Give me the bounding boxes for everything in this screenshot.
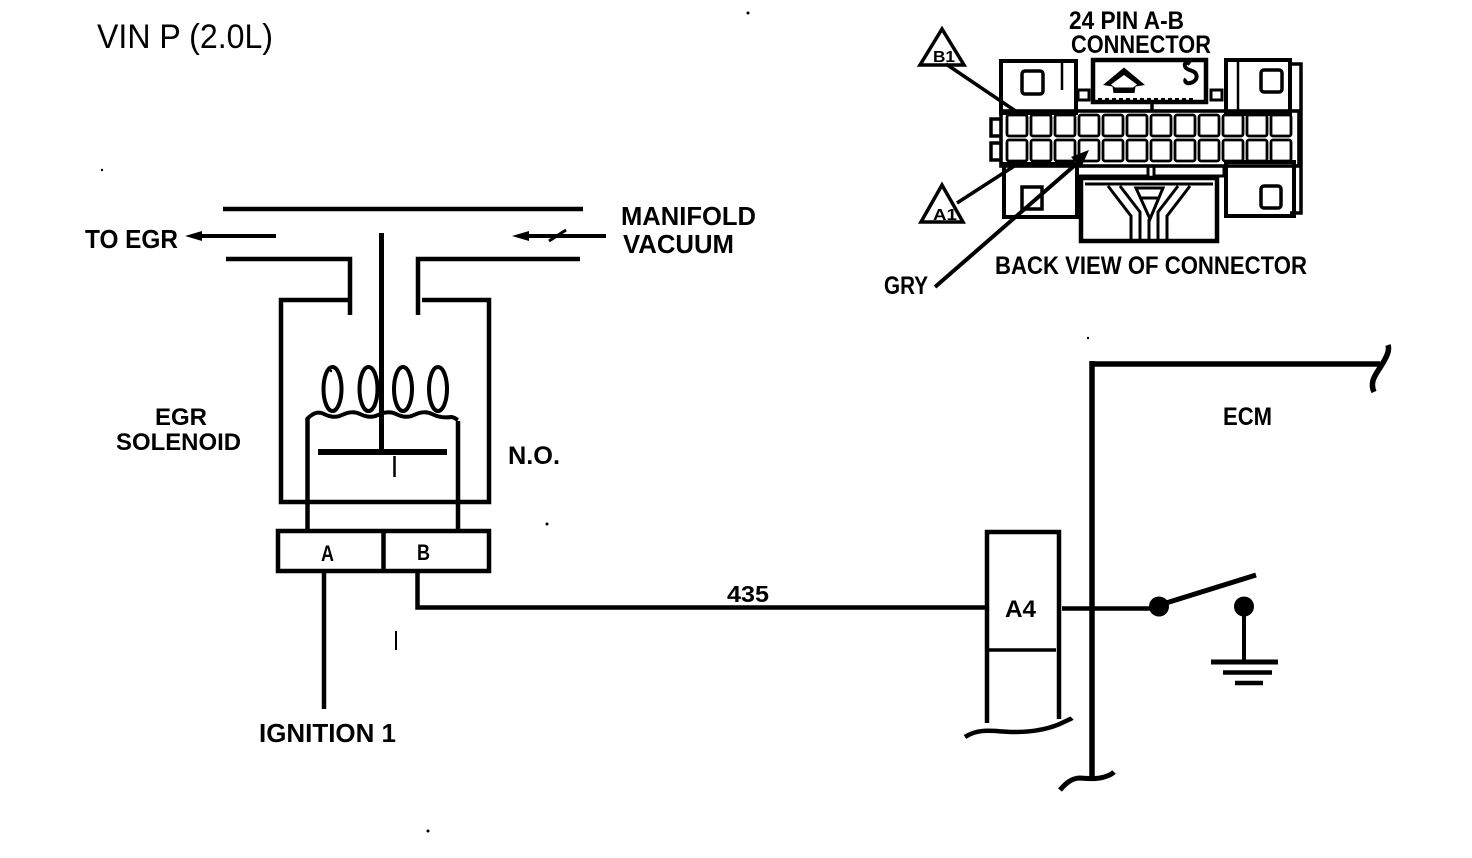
pointer line from B1 (946, 64, 1017, 112)
coil L1 of EGR solenoid (307, 367, 458, 420)
wire manifold vacuum arrow (525, 230, 606, 241)
wire TO EGR arrow (198, 234, 276, 238)
pin grid row A (1007, 115, 1291, 136)
wire to ground (1242, 615, 1246, 661)
svg-text:B1: B1 (933, 49, 955, 66)
wire 435 from pin B to ECM A4 (418, 571, 987, 608)
svg-text:A1: A1 (933, 207, 957, 224)
svg-text:VIN P (2.0L): VIN P (2.0L) (97, 18, 273, 56)
ECM top horizontal line (1090, 361, 1380, 367)
svg-text:SOLENOID: SOLENOID (116, 429, 241, 456)
svg-text:BACK VIEW OF CONNECTOR: BACK VIEW OF CONNECTOR (995, 252, 1307, 280)
wire vacuum top line (223, 207, 583, 212)
ECM internal vertical line (1089, 361, 1095, 779)
pointer line from GRY with arrowhead (935, 159, 1082, 287)
svg-text:TO EGR: TO EGR (85, 224, 178, 254)
callout triangle A1 (921, 185, 963, 222)
svg-text:MANIFOLD: MANIFOLD (621, 201, 756, 231)
valve plate (318, 449, 447, 455)
break squiggle top right (1372, 345, 1388, 392)
valve armature left lead (305, 418, 310, 531)
svg-text:435: 435 (727, 581, 769, 607)
svg-text:GRY: GRY (884, 272, 928, 300)
switch contact dot right (1234, 597, 1254, 617)
connector top-center tab (1093, 60, 1206, 102)
svg-text:EGR: EGR (155, 404, 207, 431)
ECM connector cavity A4 (987, 532, 1059, 723)
scan specks (747, 12, 750, 15)
wire solenoid plunger stem (379, 233, 384, 451)
connector right edge (1290, 64, 1301, 213)
connector top-left block (1001, 61, 1076, 113)
svg-text:N.O.: N.O. (508, 442, 560, 470)
switch contact dot left (1149, 597, 1169, 617)
EGR solenoid outer box (281, 300, 489, 502)
break squiggle bottom of ECM line (1060, 772, 1114, 790)
valve armature right lead (456, 421, 461, 532)
connector top-right block (1226, 60, 1290, 114)
connector block A-B of solenoid (278, 531, 489, 571)
torn edge of A4 box (965, 718, 1072, 737)
callout triangle B1 (920, 29, 964, 65)
connector lower strip (1077, 166, 1148, 176)
pin grid row B (1007, 140, 1291, 161)
connector bottom-left block (1004, 164, 1077, 217)
wire A4 to switch (1062, 606, 1152, 611)
wire ignition 1 (322, 571, 327, 709)
ground symbol (1211, 660, 1278, 665)
connector bottom-right block (1226, 162, 1294, 216)
pointer line from A1 (957, 161, 1022, 203)
wire left pipe to EGR (226, 259, 350, 315)
svg-text:IGNITION 1: IGNITION 1 (259, 718, 396, 748)
connector bottom-center block with Y strain relief (1081, 178, 1217, 241)
svg-text:VACUUM: VACUUM (623, 229, 734, 259)
svg-text:ECM: ECM (1223, 403, 1272, 431)
valve tick below plate (393, 456, 396, 477)
svg-text:CONNECTOR: CONNECTOR (1071, 31, 1211, 59)
24-pin connector main band (1001, 111, 1299, 166)
stray tick mark (395, 631, 397, 650)
svg-text:B: B (417, 540, 430, 565)
wire right pipe manifold vacuum (418, 259, 580, 315)
switch arm (1166, 575, 1256, 603)
svg-text:A: A (321, 541, 334, 566)
connector left latch bumps (991, 119, 1002, 136)
svg-text:A4: A4 (1005, 596, 1037, 623)
